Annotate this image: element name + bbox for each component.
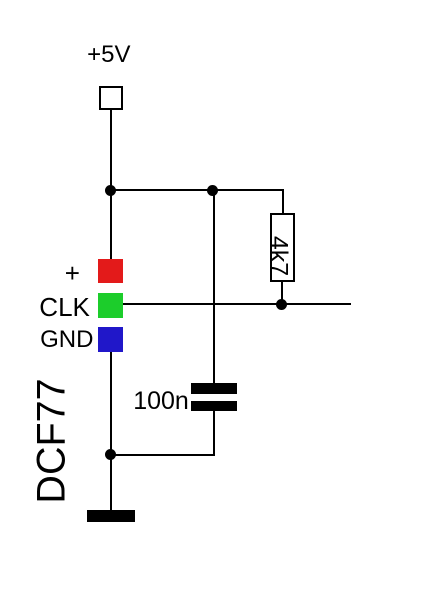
pin label + [65,260,80,286]
value label 4k7 [265,236,290,276]
module label DCF77 [33,378,73,503]
wire CLK line [123,303,352,305]
supply pin square [99,86,123,110]
junction node B [207,185,218,196]
wire node B down to capacitor top [213,190,215,383]
junction node C [276,299,287,310]
wire node A down to + pin [110,190,112,260]
capacitor C1 top plate [191,383,237,394]
module pin GND (blue square) [98,327,123,352]
pin label GND [40,328,93,352]
net label +5V [87,43,130,67]
junction node D [105,449,116,460]
wire capacitor bottom down [213,411,215,455]
wire resistor bottom to node C [281,281,283,305]
wire corner down to resistor top [282,190,284,214]
wire GND pin to node D [110,352,112,455]
pin label CLK [39,294,90,320]
value label 100n [133,389,189,414]
module pin + (red square) [98,259,123,283]
resistor R1 body [270,213,295,282]
wire +5V pin to node A [110,109,112,191]
capacitor C1 bottom plate [191,401,237,412]
junction node A [105,185,116,196]
wire node D to ground [110,455,112,511]
module pin CLK (green square) [98,293,124,319]
wire capacitor leg to node D (horizontal) [110,454,215,456]
ground symbol [87,510,136,522]
wire node A to resistor corner (horizontal) [110,189,284,191]
